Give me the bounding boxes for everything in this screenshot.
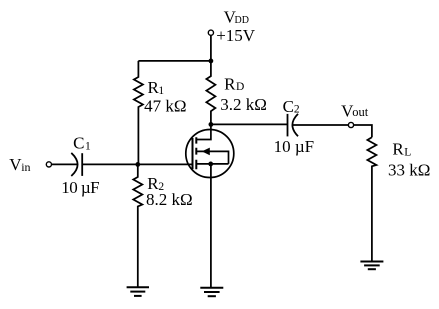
svg-text:10 µF: 10 µF [61,178,99,197]
svg-text:out: out [352,105,369,119]
svg-text:2: 2 [294,104,300,116]
svg-text:1: 1 [158,85,164,97]
svg-text:L: L [404,146,411,158]
svg-text:10 µF: 10 µF [274,137,315,156]
svg-text:+15V: +15V [216,26,256,45]
svg-text:D: D [236,81,244,93]
svg-text:1: 1 [85,140,91,152]
svg-text:8.2 kΩ: 8.2 kΩ [146,190,193,209]
svg-text:2: 2 [158,181,164,193]
svg-text:C: C [283,97,294,116]
svg-text:33 kΩ: 33 kΩ [388,160,430,179]
svg-text:47 kΩ: 47 kΩ [144,96,186,115]
svg-text:R: R [392,140,404,159]
svg-text:C: C [73,134,84,153]
svg-text:DD: DD [235,15,249,26]
svg-text:in: in [21,160,30,174]
svg-text:R: R [224,74,236,93]
svg-text:3.2 kΩ: 3.2 kΩ [220,95,267,114]
